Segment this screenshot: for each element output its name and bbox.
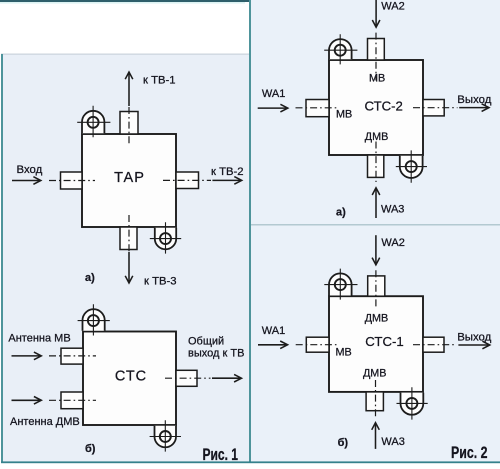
arrow к ТВ-1: [128, 72, 130, 106]
top dark teal bar: [0, 0, 250, 2]
stub bottom port STS-1: [366, 392, 383, 411]
arrow Вход: [12, 180, 40, 182]
centerline right STS-1: [413, 344, 456, 346]
box STS-2 body: [329, 60, 423, 155]
svg-text:ДМВ: ДМВ: [363, 368, 387, 380]
svg-text:WA2: WA2: [381, 1, 404, 13]
svg-text:WA1: WA1: [262, 88, 285, 100]
screw hole bottom-right: [160, 233, 171, 244]
mounting ear top-left STS-1: [329, 273, 352, 295]
mounting ear top-left STS: [83, 309, 105, 331]
crosshair top-left ear: [77, 106, 110, 137]
centerline right TAP: [163, 179, 211, 181]
svg-text:Выход: Выход: [457, 331, 491, 343]
header separator line: [1, 54, 249, 55]
arrow antenna DMV: [12, 399, 41, 401]
centerline left upper STS: [49, 355, 96, 357]
arrow WA3 fig2a: [375, 188, 377, 218]
centerline top STS-2: [375, 33, 377, 81]
svg-text:б): б): [85, 443, 96, 455]
centerline bottom TAP: [128, 215, 130, 252]
arrow antenna MV: [12, 355, 41, 357]
stub left port STS-2: [306, 100, 329, 117]
svg-text:к ТВ-3: к ТВ-3: [144, 275, 177, 287]
box STS-1 body: [329, 296, 423, 392]
stub top port: [120, 112, 138, 135]
arrow WA3 fig2b: [375, 423, 377, 449]
arrow WA2 fig2a: [375, 0, 377, 27]
crosshair bottom-right ear STS-1: [397, 387, 428, 419]
right panel background: [250, 0, 500, 463]
stub right port STS-1: [423, 337, 444, 352]
screw hole bottom-right STS: [160, 431, 171, 442]
svg-text:а): а): [336, 207, 346, 219]
mounting ear top-left STS-2: [329, 39, 352, 59]
svg-text:выход к ТВ: выход к ТВ: [188, 348, 244, 360]
centerline bottom STS-1: [375, 380, 377, 418]
svg-text:ТАР: ТАР: [114, 170, 145, 186]
mounting ear bottom-right STS-2: [400, 156, 423, 178]
arrow Vyhod fig2b: [458, 344, 489, 346]
crosshair top-left ear STS-1: [324, 269, 357, 300]
svg-text:МВ: МВ: [336, 109, 352, 121]
svg-text:Рис. 1: Рис. 1: [203, 446, 239, 464]
screw hole top-left STS-2: [335, 45, 346, 56]
bottom teal border: [1, 461, 500, 463]
stub top port STS-1: [368, 276, 385, 296]
centerline top STS-1: [375, 270, 377, 308]
svg-text:Антенна ДМВ: Антенна ДМВ: [10, 416, 80, 428]
svg-text:СТС: СТС: [115, 369, 147, 385]
mounting ear bottom-right STS: [155, 426, 177, 447]
crosshair bottom-right ear STS: [150, 420, 181, 451]
svg-text:к ТВ-1: к ТВ-1: [143, 75, 176, 87]
svg-text:WA1: WA1: [262, 325, 285, 337]
mounting ear bottom-right: [155, 228, 176, 249]
svg-text:Выход: Выход: [457, 94, 491, 106]
mounting ear bottom-right STS-1: [401, 393, 424, 415]
screw hole top-left: [88, 117, 99, 128]
crosshair top-left ear STS: [78, 304, 110, 335]
svg-text:МВ: МВ: [369, 72, 385, 84]
stub bottom port: [120, 227, 137, 250]
svg-text:МВ: МВ: [336, 347, 352, 359]
svg-text:ДМВ: ДМВ: [365, 312, 389, 324]
left panel background: [1, 54, 250, 463]
screw hole top-left STS-1: [335, 279, 346, 290]
svg-text:СТС-1: СТС-1: [365, 334, 403, 349]
stub bottom port STS-2: [368, 155, 384, 177]
centerline left STS-1: [296, 344, 338, 346]
svg-text:Антенна МВ: Антенна МВ: [8, 333, 70, 345]
svg-text:WA3: WA3: [381, 436, 404, 448]
arrow WA2 fig2b: [375, 235, 377, 264]
left teal border: [1, 54, 3, 463]
centerline left lower STS: [49, 399, 96, 401]
arrow WA1 fig2b: [258, 344, 287, 346]
svg-text:Вход: Вход: [17, 164, 43, 176]
arrow WA1 fig2a: [258, 107, 288, 109]
stub right port: [176, 370, 197, 386]
center divider: [249, 0, 251, 463]
svg-text:ДМВ: ДМВ: [365, 131, 389, 143]
svg-text:Рис. 2: Рис. 2: [451, 444, 488, 462]
centerline top TAP: [128, 107, 130, 145]
crosshair top-left ear STS-2: [324, 34, 357, 64]
stub left upper port: [61, 348, 83, 364]
svg-text:Общий: Общий: [188, 336, 224, 348]
crosshair bottom-right ear: [150, 222, 181, 253]
stub left port STS-1: [306, 337, 329, 352]
centerline left STS-2: [296, 107, 339, 109]
screw hole bottom-right STS-1: [406, 398, 417, 409]
centerline bottom STS-2: [375, 142, 377, 183]
arrow к ТВ-2: [212, 179, 241, 181]
crosshair bottom-right ear STS-2: [396, 150, 427, 182]
arrow common output: [212, 377, 241, 379]
screw hole top-left STS: [88, 315, 99, 326]
box TAP body: [82, 134, 176, 227]
arrow Vyhod fig2a: [459, 107, 488, 109]
screw hole bottom-right STS-2: [406, 161, 417, 172]
right panel mid divider: [251, 224, 500, 226]
svg-text:б): б): [338, 437, 349, 449]
svg-text:а): а): [85, 272, 95, 284]
stub right port: [176, 172, 199, 189]
box STS body: [83, 332, 176, 426]
mounting ear top-left: [82, 111, 104, 134]
arrow к ТВ-3: [128, 252, 130, 283]
centerline right STS: [165, 377, 211, 379]
svg-text:к ТВ-2: к ТВ-2: [211, 166, 244, 178]
top bar halo: [0, 2, 245, 4]
stub right port STS-2: [423, 100, 444, 116]
svg-text:WA3: WA3: [381, 204, 404, 216]
stub top port STS-2: [368, 39, 385, 61]
svg-text:WA2: WA2: [381, 237, 404, 249]
centerline right STS-2: [413, 107, 458, 109]
svg-text:СТС-2: СТС-2: [365, 98, 403, 113]
centerline left TAP: [49, 180, 95, 182]
stub left port: [61, 172, 83, 189]
stub left lower port: [61, 392, 83, 409]
